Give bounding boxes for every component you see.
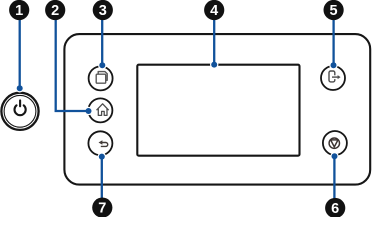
ball 6 [325, 198, 345, 218]
eject icon [329, 71, 341, 82]
power button outer ring [1, 93, 38, 130]
callout 5 dot halo [329, 61, 337, 69]
callout dot 2 [86, 108, 92, 114]
power button inner ring [4, 95, 36, 127]
callout dot 5 [331, 62, 337, 68]
stop button [323, 131, 347, 155]
stop icon [329, 138, 339, 148]
eject button [321, 66, 345, 90]
callout line 7 [101, 157, 103, 198]
back button [88, 131, 112, 155]
callout dot 1 [17, 85, 23, 91]
copy button [89, 66, 113, 90]
ball 5 [324, 0, 344, 20]
ball 3 [93, 0, 113, 20]
svg-text:1: 1 [15, 3, 23, 19]
callout 6 dot halo [330, 152, 338, 160]
callout 3 dot halo [98, 61, 106, 69]
callout dot 4 [211, 62, 217, 68]
ball 4 [204, 0, 224, 20]
callout line 5 [332, 19, 334, 65]
callout 1 dot halo [16, 84, 24, 92]
LCD screen [137, 65, 299, 156]
home button [88, 98, 112, 122]
callout line 4 [213, 19, 215, 64]
copy icon [96, 72, 107, 84]
ball 7 [92, 198, 112, 218]
callout line 6 [333, 156, 335, 199]
control panel body [64, 34, 370, 185]
svg-text:2: 2 [51, 3, 59, 19]
callout line 2 [56, 19, 88, 111]
svg-text:4: 4 [210, 3, 218, 19]
callout 2 dot halo [84, 107, 92, 115]
svg-text:7: 7 [98, 201, 106, 217]
ball 1 [9, 0, 29, 20]
svg-text:6: 6 [331, 201, 339, 217]
callout 7 dot halo [98, 152, 106, 160]
callout 4 dot halo [210, 60, 218, 68]
back icon [99, 140, 108, 146]
callout dot 6 [332, 153, 338, 159]
callout line 3 [101, 19, 103, 65]
callout dot 7 [99, 154, 105, 160]
ball 2 [45, 0, 65, 20]
svg-text:3: 3 [99, 3, 107, 19]
home icon [97, 104, 109, 116]
callout dot 3 [99, 62, 105, 68]
callout line 1 [19, 19, 21, 88]
power icon [15, 100, 26, 115]
svg-text:5: 5 [330, 3, 338, 19]
